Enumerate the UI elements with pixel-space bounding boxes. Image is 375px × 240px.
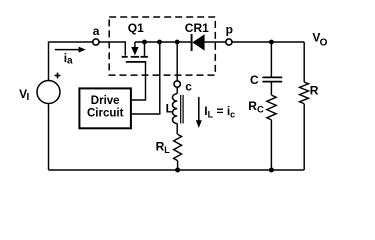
dashed PWM-switch box [109,17,215,75]
body contact tick [131,56,139,58]
internal rail Q1 source to CR1 [135,41,192,43]
wire C to RC [270,82,272,95]
svg-text:L: L [166,102,173,116]
drive return wire [131,42,160,114]
voltage source VI [37,81,60,104]
junction dot (drive return) [157,40,162,45]
wire inductor to RL [176,124,178,135]
wire RC to bottom rail [270,120,272,170]
source contact tick [141,56,148,58]
resistor R [300,82,309,104]
junction dot (RL to rail) [175,168,180,173]
wire node a to Q1 drain [99,42,125,56]
wire VI bottom to ground rail [48,104,50,171]
capacitor branch wire [270,42,272,77]
svg-text:R: R [310,84,319,98]
svg-text:VI: VI [19,87,29,103]
svg-text:RL: RL [156,140,171,156]
transistor Q1 [122,42,148,62]
gate wire to drive circuit [131,62,146,100]
source vertical [144,42,146,56]
gate bar [126,61,146,63]
inductor core bars [180,95,182,124]
svg-text:IL = ic: IL = ic [204,104,235,120]
svg-text:c: c [185,79,192,93]
svg-text:p: p [226,22,233,36]
node c [174,81,180,87]
plus sign of VI [55,73,61,79]
svg-text:Q1: Q1 [128,21,144,35]
body arrow [134,42,136,48]
node p [226,39,232,45]
svg-text:Drive: Drive [91,95,120,107]
output rail p to R corner [232,41,304,43]
svg-text:C: C [250,73,259,87]
node c branch wire [176,42,178,81]
inductor current arrow iL [196,97,202,128]
svg-text:RC: RC [248,99,264,116]
drive circuit box [79,88,130,128]
junction dot (RC to rail) [269,168,274,173]
junction dot (C branch) [269,40,274,45]
wire VI top to rail [49,42,93,81]
svg-text:CR1: CR1 [185,21,209,35]
inductor L winding [172,94,177,124]
junction dot (Q1 source) [142,40,147,45]
svg-text:VO: VO [312,31,327,49]
node a [93,39,99,45]
bottom rail wire [49,169,305,171]
wire RL to bottom rail [177,161,179,170]
svg-text:Circuit: Circuit [87,107,124,119]
svg-text:a: a [93,24,100,38]
resistor RC [267,95,276,120]
junction dot (node c tap) [175,40,180,45]
svg-text:ia: ia [64,51,73,67]
load R branch wire top [303,42,305,82]
wire R to bottom rail [303,104,305,170]
resistor RL [174,134,182,160]
capacitor C plates [262,76,282,78]
drain contact tick [122,56,128,58]
diode CR1 [192,34,226,51]
current arrow ia [55,47,86,53]
wire node c to inductor [176,87,178,94]
